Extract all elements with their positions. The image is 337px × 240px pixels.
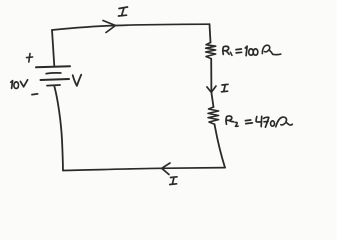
label 10V xyxy=(11,80,28,89)
value 100 ohm xyxy=(245,45,280,55)
wire left upper (corner to battery) xyxy=(52,30,54,66)
equals sign R1 xyxy=(236,49,242,53)
wire right mid (R1 to arrow) xyxy=(210,59,212,92)
wire right lower (R2 to bottom corner) xyxy=(215,124,226,167)
arrowhead current top (pointing right) xyxy=(103,21,116,33)
wire left lower (battery to bottom corner) xyxy=(54,86,63,171)
battery V1 long plate xyxy=(41,79,70,80)
arrowhead current bottom (pointing left) xyxy=(162,163,170,175)
label I bottom xyxy=(170,177,177,185)
minus sign xyxy=(32,93,38,96)
wire top xyxy=(52,24,210,30)
battery V1 top long plate xyxy=(36,66,70,67)
label V (voltage across battery) xyxy=(73,75,82,86)
label R2 xyxy=(226,116,238,126)
battery V1 bottom short plate xyxy=(47,84,60,87)
wire bottom xyxy=(63,168,225,171)
wire right (arrow to R2) xyxy=(211,92,213,107)
arrowhead current right (pointing down) xyxy=(207,86,216,92)
label I right xyxy=(222,84,229,92)
label R1 xyxy=(223,46,232,55)
resistor R1 zigzag xyxy=(206,43,216,59)
wire right upper (top corner to R1) xyxy=(210,24,211,42)
equals sign R2 xyxy=(245,120,252,124)
value 470 ohm xyxy=(256,116,292,127)
battery V1 short plate xyxy=(46,72,61,75)
resistor R2 zigzag xyxy=(208,107,219,124)
label I top xyxy=(119,7,128,16)
plus sign xyxy=(27,54,33,63)
